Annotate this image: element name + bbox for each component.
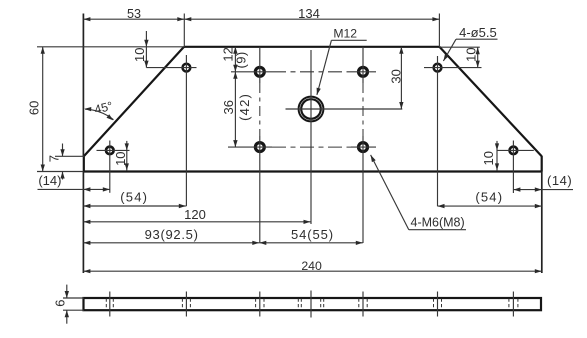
- extension line slant-bottom level left (7 dim): [55, 155, 85, 157]
- svg-text:7: 7: [46, 155, 61, 162]
- side view hidden hole lines top-right hole: [437, 292, 439, 317]
- hole M6 top-left: [255, 67, 264, 76]
- dimension 60 (left height): [42, 47, 44, 172]
- dimension 134 (top width): [184, 18, 439, 20]
- hole M6 top-right: [359, 67, 368, 76]
- centerline M12 vertical / ext to 120 dim: [310, 50, 312, 224]
- side view hidden hole lines bottom-right hole: [512, 292, 514, 317]
- svg-text:10: 10: [481, 151, 496, 165]
- side view extension lines for 6 dim: [63, 297, 84, 299]
- svg-text:93(92.5): 93(92.5): [145, 227, 199, 242]
- centerline M6 bottom row solid left: [228, 146, 272, 148]
- dimension 45 degree angle (arc with arrows): [85, 109, 113, 120]
- dimension 36 (M6 rows spacing): [234, 72, 236, 147]
- dimension 10 top-left hole: [145, 31, 147, 68]
- side view hidden hole lines M6 left column: [259, 292, 261, 317]
- dimension 240 (overall width): [83, 270, 541, 272]
- centerline M6 right column solid bottom / ext to 54(55): [362, 136, 364, 243]
- extension line left below plate: [82, 172, 84, 274]
- centerline M6 bottom row solid right: [351, 146, 376, 148]
- svg-text:54(55): 54(55): [291, 227, 334, 242]
- svg-text:(42): (42): [237, 93, 252, 121]
- svg-text:134: 134: [298, 6, 320, 21]
- hole M12 bore circle: [301, 99, 321, 119]
- dimension 10 top-right hole: [477, 47, 479, 67]
- svg-text:(14): (14): [38, 173, 61, 188]
- hole M6 bottom-right: [359, 143, 368, 152]
- side view hidden hole lines bottom-left hole: [109, 292, 111, 317]
- dimension 7 left corner: [62, 144, 64, 157]
- hole bottom-left ø5.5: [106, 147, 114, 155]
- plate left 45-deg slant edge: [84, 47, 184, 157]
- dimension (14) right: [513, 189, 573, 191]
- side view hidden hole lines M12: [310, 291, 312, 318]
- dimension (14) left: [38, 188, 110, 190]
- centerline M6 left column dash-dot: [259, 83, 261, 136]
- centerline hole bottom-right horizontal: [497, 149, 534, 151]
- svg-text:10: 10: [464, 47, 479, 61]
- centerline hole bottom-left vertical / ext to (14): [109, 141, 111, 193]
- extension line top edge level to right: [439, 46, 479, 48]
- hole top-right ø5.5: [434, 64, 442, 72]
- centerline hole top-left vertical / ext to (54): [185, 55, 187, 206]
- centerline M6 right column solid top: [362, 47, 364, 83]
- centerline M6 top row dash-dot: [272, 71, 351, 73]
- dimension 120: [83, 221, 310, 223]
- svg-text:(54): (54): [475, 190, 503, 205]
- centerline hole bottom-left horizontal: [97, 149, 130, 151]
- svg-text:M12: M12: [333, 27, 357, 41]
- plate right 45-deg slant edge: [439, 47, 541, 157]
- svg-text:10: 10: [113, 151, 128, 165]
- extension line bottom edge level to left: [37, 171, 83, 173]
- svg-text:(54): (54): [120, 190, 148, 205]
- dimension 6 (thickness): [66, 285, 68, 298]
- extension line right below plate: [541, 172, 543, 274]
- centerline hole top-right horizontal: [424, 67, 482, 69]
- svg-text:6: 6: [52, 300, 67, 307]
- dimension 12 (top to M6 row): [234, 47, 236, 72]
- extension line top edge level to left: [37, 46, 184, 48]
- centerline M6 left column solid bottom / ext to 93-54 dims: [259, 136, 261, 243]
- svg-text:4-M6(M8): 4-M6(M8): [411, 216, 465, 230]
- centerline M6 bottom row dash-dot: [272, 146, 351, 148]
- dimension (54) left: [83, 205, 185, 207]
- centerline M6 top row solid left: [231, 71, 272, 73]
- side view bar outline: [84, 298, 542, 310]
- hole M12 thread circle: [299, 97, 324, 122]
- dimension 54(55): [259, 242, 363, 244]
- side view hidden hole lines top-left hole: [185, 292, 187, 317]
- centerline M6 top row solid right: [351, 71, 376, 73]
- centerline M6 left column solid top: [259, 47, 261, 83]
- dimension (54) right: [438, 205, 542, 207]
- plate right corner vertical edge: [541, 156, 543, 172]
- centerline M12 horizontal / ext to 30 dim: [286, 108, 403, 110]
- dimension 93(92.5): [83, 242, 259, 244]
- dimension 10 bottom-left hole: [126, 141, 128, 171]
- plate bottom edge: [83, 170, 542, 172]
- extension line top-left corner vertical: [183, 14, 185, 47]
- dimension 30 (top to M12): [400, 47, 402, 109]
- plate left corner vertical edge: [83, 156, 85, 172]
- svg-text:30: 30: [389, 69, 404, 83]
- plate top edge: [184, 46, 439, 48]
- svg-text:60: 60: [26, 101, 41, 115]
- extension line left (plate left corner) vertical: [82, 14, 84, 157]
- svg-text:(9): (9): [233, 51, 248, 68]
- extension line top-right corner vertical: [438, 14, 440, 47]
- svg-text:10: 10: [132, 48, 147, 62]
- svg-text:36: 36: [221, 100, 236, 114]
- svg-text:(14): (14): [547, 173, 572, 188]
- centerline hole top-left horizontal: [146, 67, 196, 69]
- svg-text:53: 53: [127, 7, 141, 21]
- hole top-left ø5.5: [183, 64, 191, 72]
- hole bottom-right ø5.5: [510, 147, 518, 155]
- dimension 10 bottom-right hole: [496, 141, 498, 171]
- dimension 53 (top left width): [83, 18, 184, 20]
- centerline hole top-right vertical / ext to (54): [437, 56, 439, 206]
- svg-text:120: 120: [184, 207, 206, 222]
- centerline hole bottom-right vertical / ext to (14): [512, 141, 514, 194]
- side view hidden hole lines M6 right column: [362, 292, 364, 317]
- svg-text:240: 240: [301, 259, 322, 273]
- svg-text:4-ø5.5: 4-ø5.5: [459, 25, 497, 40]
- hole M6 bottom-left: [255, 143, 264, 152]
- centerline M6 right column dash-dot: [362, 83, 364, 136]
